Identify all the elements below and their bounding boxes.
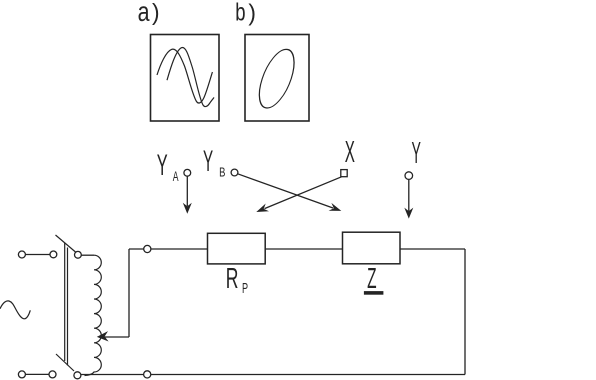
svg-text:X: X [345, 136, 355, 170]
svg-text:P: P [242, 280, 248, 297]
svg-text:Y: Y [157, 149, 168, 183]
svg-text:Y: Y [203, 144, 213, 177]
svg-text:): ) [248, 0, 256, 26]
svg-text:R: R [226, 263, 239, 296]
svg-text:a: a [138, 0, 150, 28]
svg-text:): ) [152, 0, 160, 25]
svg-text:b: b [235, 0, 245, 26]
svg-text:B: B [219, 166, 226, 180]
svg-text:Z: Z [367, 262, 376, 294]
svg-text:Y: Y [412, 136, 421, 171]
svg-text:A: A [173, 170, 179, 184]
